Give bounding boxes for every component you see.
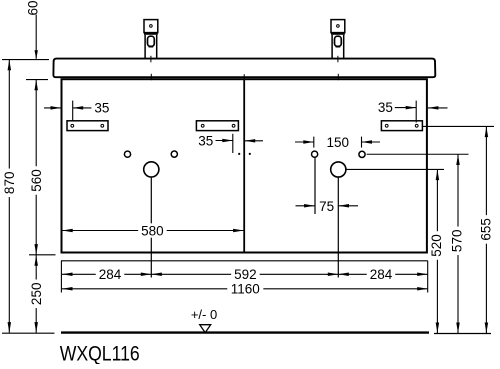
svg-text:580: 580 [141,223,164,238]
svg-text:35: 35 [378,100,393,115]
svg-text:592: 592 [234,267,257,282]
svg-text:35: 35 [198,133,213,148]
svg-text:870: 870 [2,172,17,195]
svg-text:1160: 1160 [231,282,260,297]
svg-text:655: 655 [478,218,493,241]
svg-text:284: 284 [370,267,393,282]
svg-text:560: 560 [29,169,44,192]
svg-text:WXQL116: WXQL116 [60,342,140,364]
svg-text:250: 250 [29,283,44,306]
svg-text:75: 75 [319,199,334,214]
svg-text:520: 520 [429,234,444,257]
svg-text:570: 570 [450,230,465,253]
svg-text:284: 284 [99,267,122,282]
svg-text:35: 35 [94,101,109,116]
svg-text:60: 60 [25,0,40,15]
svg-text:150: 150 [327,135,350,150]
svg-text:+/- 0: +/- 0 [191,307,217,322]
